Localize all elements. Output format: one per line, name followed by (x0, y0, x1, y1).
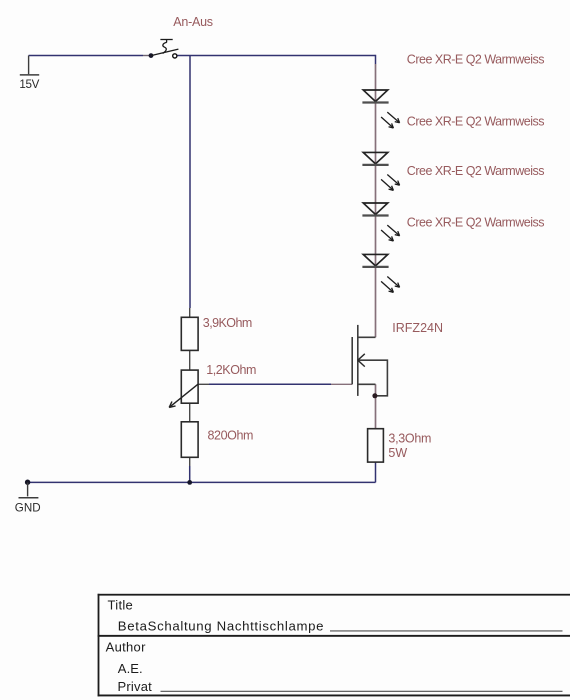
svg-text:An-Aus: An-Aus (173, 15, 213, 29)
svg-text:1,2KOhm: 1,2KOhm (206, 363, 256, 377)
svg-text:3,3Ohm: 3,3Ohm (388, 431, 431, 445)
svg-text:3,9KOhm: 3,9KOhm (203, 316, 252, 330)
svg-text:Author: Author (106, 639, 146, 654)
svg-text:5W: 5W (388, 446, 407, 460)
svg-text:BetaSchaltung Nachttischlampe: BetaSchaltung Nachttischlampe (118, 619, 324, 634)
svg-text:A.E.: A.E. (118, 661, 143, 676)
svg-text:Title: Title (108, 598, 134, 613)
svg-text:15V: 15V (19, 78, 39, 91)
svg-text:IRFZ24N: IRFZ24N (392, 321, 443, 335)
svg-text:Cree XR-E Q2 Warmweiss: Cree XR-E Q2 Warmweiss (407, 52, 544, 66)
svg-text:GND: GND (15, 502, 41, 515)
svg-text:Cree XR-E Q2 Warmweiss: Cree XR-E Q2 Warmweiss (407, 114, 544, 128)
svg-text:Cree XR-E Q2 Warmweiss: Cree XR-E Q2 Warmweiss (407, 216, 544, 230)
svg-text:Privat: Privat (118, 679, 153, 694)
svg-text:820Ohm: 820Ohm (208, 428, 254, 442)
svg-text:Cree XR-E Q2 Warmweiss: Cree XR-E Q2 Warmweiss (407, 164, 544, 178)
